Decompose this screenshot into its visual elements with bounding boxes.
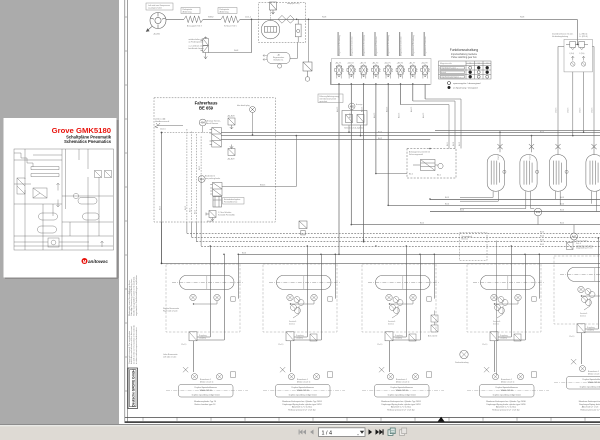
exhaust valve B25 (206, 211, 236, 224)
svg-text:1 / 4: 1 / 4 (322, 430, 333, 436)
sensor valve B28 (227, 115, 235, 130)
svg-text:to others without expressed au: to others without expressed authorizatio… (135, 328, 138, 364)
wire B34.5 parking to riser (222, 136, 296, 187)
brake group 2 axle (263, 245, 345, 397)
svg-text:B34.5: B34.5 (260, 185, 266, 187)
svg-text:341: 341 (200, 177, 205, 181)
svg-text:+A1-Y3: +A1-Y3 (360, 62, 366, 65)
svg-text:Neutral: Neutral (440, 71, 447, 74)
svg-text:C+ (RD.6): C+ (RD.6) (579, 36, 588, 38)
svg-text:Release pressure 5,7 ± 6,3 bar: Release pressure 5,7 ± 6,3 bar (288, 409, 316, 411)
axle note text (462, 235, 473, 240)
group 1 mid text (194, 401, 217, 406)
svg-text:A64.5: A64.5 (348, 112, 351, 118)
coupling labels L+ C+ (579, 34, 588, 39)
cab drop rotated labels (159, 165, 201, 214)
drop wire rotated labels (336, 106, 425, 118)
nav first-page button (disabled) (299, 430, 306, 435)
svg-text:+A1-Y5: +A1-Y5 (384, 62, 390, 65)
group 2 spring chambers (289, 297, 317, 342)
table header symbols (469, 63, 488, 65)
svg-text:L (Rd): L (Rd) (569, 53, 574, 55)
coupling junction dot (577, 44, 579, 46)
cooling coil 1 (184, 16, 203, 23)
group 2 extra text (282, 401, 322, 411)
svg-text:Magnetventil Schaltung: Magnetventil Schaltung (363, 35, 366, 56)
air reservoir capsule 1 (487, 155, 506, 192)
wire B4.2 cab to right edge (221, 135, 600, 137)
svg-text:Kontrolle Feststellbr.: Kontrolle Feststellbr. (218, 213, 236, 216)
right distribution wire 3 (430, 211, 600, 213)
svg-text:Bremse: Bremse (462, 237, 469, 240)
capsule feed rotated labels (498, 154, 531, 160)
rotated disclaimer text block 1 (128, 275, 138, 316)
svg-text:484: 484 (201, 121, 206, 125)
long-term lock circle 443 (455, 350, 468, 364)
svg-text:Abschnitt 5,7 ± 6,3: Abschnitt 5,7 ± 6,3 (582, 406, 599, 409)
handbrake valve (201, 37, 209, 59)
svg-text:anitowoc: anitowoc (88, 259, 108, 264)
svg-text:Magnetventil Getriebe: Magnetventil Getriebe (424, 36, 427, 56)
axle note dashed box (460, 233, 488, 261)
wire coil1 to coil2 (203, 18, 221, 20)
svg-text:A64.5: A64.5 (422, 112, 425, 118)
svg-text:Right side of axle: Right side of axle (163, 309, 178, 312)
svg-text:+A1-Y2: +A1-Y2 (347, 62, 353, 65)
reservoir circle 441 (534, 208, 542, 216)
svg-text:Magnetventil Getriebe: Magnetventil Getriebe (350, 36, 353, 56)
main brake valve block (210, 128, 222, 148)
trailer box top feeders (401, 99, 462, 149)
capsule 2 outlet wires (460, 191, 534, 208)
check arrows (571, 56, 585, 60)
svg-text:Abkühlung: Abkühlung (183, 11, 192, 14)
svg-text:Verbindungsleitung: Verbindungsleitung (552, 35, 568, 38)
svg-text:1.Vg./Sel.brake/T-gear →: 1.Vg./Sel.brake/T-gear → (440, 76, 461, 79)
group 3 extra text (381, 401, 421, 411)
svg-text:Abschnitt 5,7 ± 6,3 bar: Abschnitt 5,7 ± 6,3 bar (292, 406, 312, 409)
air dryer cartridge (261, 10, 279, 39)
svg-text:+A1-Y8: +A1-Y8 (421, 62, 427, 65)
trailer coupling box (564, 39, 592, 72)
valve row outline box (332, 59, 432, 85)
svg-text:C64.5: C64.5 (555, 107, 557, 113)
compressor P1 (146, 13, 166, 32)
svg-text:Diaphragm/Spring brake: Diaphragm/Spring brake (579, 404, 600, 406)
shutoff cock 4 (591, 143, 596, 155)
filter note box (318, 94, 343, 103)
filter diamond 2 (287, 15, 298, 23)
svg-text:Drehverbindung: Drehverbindung (455, 361, 468, 364)
svg-text:Anh.-Ventil: Anh.-Ventil (428, 335, 438, 338)
parking brake valve block (210, 183, 222, 197)
air dryer assembly dashed box (259, 3, 306, 43)
export all icon (disabled) (400, 428, 407, 435)
svg-text:zu-/abgeschaltet: zu-/abgeschaltet (148, 7, 162, 10)
cooling coil 2 (221, 16, 240, 23)
svg-text:Diaphragm/Spring brake cylinde: Diaphragm/Spring brake cylinder type 24/… (381, 403, 421, 406)
svg-text:+A1-B28: +A1-B28 (227, 115, 234, 118)
shutoff cock 1 (497, 132, 502, 152)
shutoff cock 2 (529, 136, 534, 153)
hand brake fork symbol (155, 123, 183, 131)
wire labels B4.5 B4.2 (378, 131, 545, 140)
svg-text:12x1,5: 12x1,5 (245, 17, 252, 19)
handbrake note box (189, 38, 205, 50)
Funktionsschaltung legend title (450, 48, 479, 59)
trailer control box label (409, 151, 430, 157)
junction dot bus riser (251, 19, 253, 21)
nav last-page button (376, 429, 384, 434)
supply feed to valve row (329, 62, 331, 84)
regeneration label capsule (263, 53, 290, 64)
svg-text:441: 441 (536, 210, 541, 214)
svg-text:A64.5: A64.5 (385, 106, 388, 112)
check valve cartridge (295, 19, 301, 42)
wire inside dryer box (258, 18, 312, 20)
coupling head left (566, 41, 578, 49)
table row captions (440, 62, 461, 79)
air reservoir capsule 3 (549, 155, 568, 192)
svg-text:eingestellt auf 7,2 b: eingestellt auf 7,2 b (576, 247, 592, 250)
svg-text:C64.5: C64.5 (567, 107, 569, 113)
svg-text:+A1-Y4: +A1-Y4 (372, 62, 378, 65)
svg-text:spannungslos / deenergized: spannungslos / deenergized (453, 82, 481, 85)
wire C64 coupling to right edge (435, 130, 600, 132)
nav prev-page button (disabled) (310, 430, 313, 435)
compressor note box (146, 3, 173, 10)
svg-text:12x1,5: 12x1,5 (160, 129, 166, 131)
purge silencer valve (270, 2, 277, 14)
gearbox unit drop wires (349, 125, 361, 136)
brake group 5 axle (clipped) (554, 237, 600, 389)
cylinder note box (223, 198, 245, 205)
svg-text:Sicherungsventil: Sicherungsventil (409, 153, 423, 156)
coupling drop wires (558, 47, 594, 144)
svg-text:+A1-Y6: +A1-Y6 (397, 62, 403, 65)
coupling head right (578, 41, 589, 49)
fahr-direkt plug symbol (250, 107, 256, 135)
thumbnail cover page in sidebar (4, 118, 119, 279)
svg-text:Impulsschaltung Getriebe: Impulsschaltung Getriebe (451, 53, 478, 56)
svg-text:+A1-Y1: +A1-Y1 (335, 62, 341, 65)
capsule 3 outlet wires (555, 191, 560, 205)
air reservoir capsule 2 (520, 155, 539, 192)
inlet filter symbol (303, 62, 312, 81)
brake group 3 axle (362, 245, 444, 397)
svg-text:C64.5: C64.5 (592, 107, 594, 113)
coil label box 1 (181, 8, 200, 14)
sensor valve B29 (227, 145, 235, 161)
svg-text:C64.5: C64.5 (580, 107, 582, 113)
svg-text:442: 442 (572, 235, 577, 239)
shutoff cock 3 (555, 143, 560, 155)
junction dots on supply bus (338, 83, 413, 85)
svg-text:Y3: Y3 (486, 63, 488, 65)
legend energized (448, 86, 479, 90)
left supply drop solid (161, 133, 163, 264)
junction dot riser (296, 135, 298, 137)
capsule 4 outlet wires (591, 191, 596, 211)
svg-text:B4.1: B4.1 (437, 175, 441, 177)
capsule 1 outlet wires (460, 191, 498, 201)
valve Y7 (408, 62, 417, 79)
wire B4.1 cab to trailer box (221, 138, 430, 140)
toolbar background (0, 424, 600, 440)
group 4 spring chambers (493, 297, 521, 342)
right distribution wire 4 (351, 224, 600, 226)
svg-text:+A1-Y7: +A1-Y7 (409, 62, 415, 65)
svg-text:Getriebeschalt-Zylinder: Getriebeschalt-Zylinder (344, 127, 364, 130)
svg-text:C (Rd): C (Rd) (579, 53, 585, 55)
junction dots on brake wires (252, 131, 533, 255)
table state circles (469, 66, 489, 78)
svg-text:zugestanden. Zuwiderhandlungen: zugestanden. Zuwiderhandlungen verpflich… (135, 275, 138, 316)
trailer control dashed box (407, 149, 456, 179)
right wire labels (420, 197, 565, 225)
svg-text:Release pressure 5,7 ± 6,3 bar: Release pressure 5,7 ± 6,3 bar (387, 409, 415, 411)
svg-text:Haupt(4Σ+45): Haupt(4Σ+45) (287, 2, 300, 5)
toolbar top border (0, 424, 600, 425)
schematic page left border frame (125, 0, 128, 423)
reservoir 441 feed (537, 216, 539, 225)
svg-text:1.Vg./brake/C-gear →: 1.Vg./brake/C-gear → (440, 67, 458, 70)
svg-text:Deutsche GROVE GmbH: Deutsche GROVE GmbH (132, 369, 136, 407)
trailer coupling note text (552, 33, 574, 39)
valve Y3 (359, 62, 368, 79)
trailer control valve body (413, 160, 443, 171)
valve Y1 (335, 62, 344, 79)
trailer control valve row label bars (338, 32, 425, 56)
svg-text:BE 659: BE 659 (199, 106, 214, 111)
hand brake note (155, 118, 170, 124)
spare line stubs right (495, 241, 497, 376)
thumbnail schematic drawing (14, 149, 114, 250)
svg-text:Handbremsventil: Handbremsventil (155, 120, 170, 123)
svg-text:A64.5: A64.5 (336, 106, 339, 112)
svg-text:Membranzylinder Typ 24: Membranzylinder Typ 24 (194, 401, 217, 403)
svg-text:485: 485 (350, 105, 355, 108)
relief valve circles (571, 62, 586, 66)
wire compressor to coil 1 (166, 18, 184, 20)
trailer control valve row label texts (rotated) (338, 35, 427, 56)
group 5 spring chambers (580, 289, 600, 334)
page bottom border (125, 417, 600, 422)
left bus labels (540, 231, 545, 246)
title block: Deutsche GROVE GmbH (128, 368, 138, 409)
pressure limiter valve mid (299, 221, 307, 235)
hand control cylinder (213, 197, 222, 208)
svg-text:Magnetventil Getriebe: Magnetventil Getriebe (375, 36, 378, 56)
distribution bus 5 (238, 253, 600, 255)
svg-text:Abschnitt 5,7 ± 6,3 bar: Abschnitt 5,7 ± 6,3 bar (391, 406, 411, 409)
svg-text:an Spannung / energized: an Spannung / energized (453, 87, 478, 90)
sidebar panel (0, 0, 119, 424)
svg-text:fahr-direkt plug: fahr-direkt plug (237, 104, 250, 107)
svg-text:Magnetventil Getriebe: Magnetventil Getriebe (400, 36, 403, 56)
page number combo field (319, 428, 366, 437)
svg-text:Left side of axle: Left side of axle (163, 355, 176, 358)
group 1 side note right of drum (163, 307, 179, 358)
distribution bus 1 from cab (186, 222, 188, 234)
svg-text:Magnetventil Schaltung: Magnetventil Schaltung (412, 35, 415, 56)
svg-text:Luft wird vom Kompressor: Luft wird vom Kompressor (148, 4, 170, 7)
bottom border ruler ticks (143, 417, 585, 420)
svg-text:Schlauch Teil 5: Schlauch Teil 5 (224, 26, 237, 28)
svg-text:+A1-B29: +A1-B29 (227, 158, 234, 161)
wire coil2 to dryer box (240, 18, 258, 20)
distribution bus 2 from cab (191, 222, 193, 238)
reservoir 442 feed (573, 225, 575, 233)
svg-text:Abkühlung: Abkühlung (220, 11, 229, 14)
svg-text:B4.2: B4.2 (409, 174, 413, 176)
distribution bus 3 from cab (195, 222, 197, 242)
pressure gauge B341 (198, 175, 220, 183)
regeneration tank circle (278, 63, 282, 68)
svg-text:Release pressure 5,7 ± 6,3 bar: Release pressure 5,7 ± 6,3 bar (492, 409, 520, 411)
circle 442 note (576, 240, 593, 250)
trailer feeder rotated labels (447, 141, 461, 146)
svg-text:+A1-M1: +A1-M1 (153, 33, 161, 36)
valve Y4 (372, 62, 381, 79)
svg-text:Diaphragm/Spring brake cylinde: Diaphragm/Spring brake cylinder type 24/… (282, 403, 322, 406)
pressure switch under 442 (567, 240, 575, 250)
reservoir circle 442 (571, 233, 578, 240)
dashed feed to brake valve (162, 132, 212, 134)
valve row supply bus (330, 83, 430, 85)
svg-text:Anzeige: Anzeige (356, 103, 363, 106)
air reservoir capsule 4 (586, 155, 600, 192)
svg-text:Y1: Y1 (469, 63, 471, 65)
svg-text:A64.5: A64.5 (373, 112, 376, 118)
svg-text:Feststellbremse: Feststellbremse (224, 201, 237, 204)
right distribution wire 2 (388, 204, 600, 206)
valve output drops (339, 84, 425, 254)
svg-text:Funktionsschaltung: Funktionsschaltung (450, 48, 479, 52)
brake group 4 axle (467, 245, 549, 397)
svg-text:Pulse switching gear box: Pulse switching gear box (451, 56, 477, 59)
wire regeneration to distribution (290, 43, 298, 59)
thumbnail Manitowoc logo (82, 258, 109, 264)
wire handbrake valve to bus riser (208, 19, 251, 52)
filter diamond 1 (278, 15, 286, 23)
export page icon (enabled) (388, 428, 395, 435)
pressure gauge B484 (199, 119, 221, 126)
svg-text:(B)-B25: (B)-B25 (207, 221, 214, 223)
svg-text:Magnetventil Schaltung: Magnetventil Schaltung (387, 35, 390, 56)
svg-text:Release pressure 5,7: Release pressure 5,7 (580, 409, 600, 411)
auxiliary valve cluster left of group 4 (431, 311, 438, 333)
coil label box 2 (218, 8, 237, 14)
svg-text:Membran-Federspeicher-: Membran-Federspeicher- (579, 401, 600, 403)
svg-text:Schematics Pneumatics: Schematics Pneumatics (64, 139, 112, 144)
valve Y5 (384, 62, 393, 79)
group 4 extra text (486, 401, 526, 411)
svg-text:Abschnitt 5,7 ± 6,3 bar: Abschnitt 5,7 ± 6,3 bar (496, 406, 516, 409)
svg-text:Y2: Y2 (478, 63, 480, 65)
junction dot left supply (161, 132, 163, 134)
cab title (195, 101, 218, 111)
group 3 spring chambers (388, 297, 416, 342)
svg-text:gesichert: gesichert (320, 100, 328, 103)
wire B4.5 cab to right edge (221, 131, 600, 133)
rotated disclaimer text block 2 (128, 325, 138, 364)
right distribution wire 1 (430, 199, 600, 201)
svg-text:M: M (83, 259, 87, 264)
distribution bus 6 from left drop (162, 222, 600, 264)
distribution bus 4 from cab (200, 178, 202, 246)
svg-text:aire parking brake: aire parking brake (205, 177, 220, 180)
valve Y8 (421, 62, 430, 79)
svg-text:bei Antrieb Liegez.: bei Antrieb Liegez. (189, 47, 205, 50)
svg-text:Magnetventil Schaltung: Magnetventil Schaltung (338, 35, 341, 56)
cab enclosure box (Fahrerhaus) (154, 98, 275, 222)
nav next-page button (369, 429, 373, 434)
brake group 1 axle (166, 245, 248, 397)
svg-text:Brake chamber type 24: Brake chamber type 24 (195, 403, 217, 406)
wire valve drop to trailer box inlet (376, 173, 407, 175)
gearbox shift unit box (342, 103, 367, 125)
main supply bus wire to right (312, 18, 577, 20)
svg-text:A64.5: A64.5 (398, 112, 401, 118)
gauge 484 stem (202, 126, 204, 133)
svg-text:SW42: SW42 (208, 17, 214, 19)
coupling drop rotated labels (555, 107, 593, 113)
svg-text:Membran-Federspeicher- Zylinde: Membran-Federspeicher- Zylinder Typ 24/2… (381, 401, 421, 403)
function table grid (439, 61, 492, 79)
junction dot left drop (161, 263, 163, 265)
svg-text:Ansaugrohr Teil 3: Ansaugrohr Teil 3 (187, 25, 202, 28)
valve Y6 (396, 62, 405, 79)
page fold mark triangle (438, 417, 445, 422)
svg-text:Behälter 5L: Behälter 5L (274, 58, 284, 61)
svg-text:an Federspeicher: an Federspeicher (189, 40, 204, 43)
svg-text:A64.5: A64.5 (410, 106, 413, 112)
trailer box port labels (409, 174, 441, 177)
left border ruler ticks (125, 17, 128, 391)
cab internal dashed drop wires (187, 129, 201, 222)
svg-text:A64.5: A64.5 (361, 106, 364, 112)
svg-text:druck Bremse: druck Bremse (207, 122, 219, 125)
supply bus drop to coupling box (577, 19, 579, 44)
svg-text:Membran-Federspeicher- Zylinde: Membran-Federspeicher- Zylinder Typ 24/2… (282, 401, 322, 403)
valve Y2 (347, 62, 356, 79)
svg-text:Magnetventile: Magnetventile (440, 62, 452, 65)
legend deenergized (448, 82, 482, 86)
svg-text:Membran-Federspeicher- Zylinde: Membran-Federspeicher- Zylinder Typ 24/3… (486, 401, 526, 403)
svg-text:Diaphragm/Spring brake cylinde: Diaphragm/Spring brake cylinder type 24/… (486, 403, 526, 406)
group 5 extra text (579, 401, 600, 411)
